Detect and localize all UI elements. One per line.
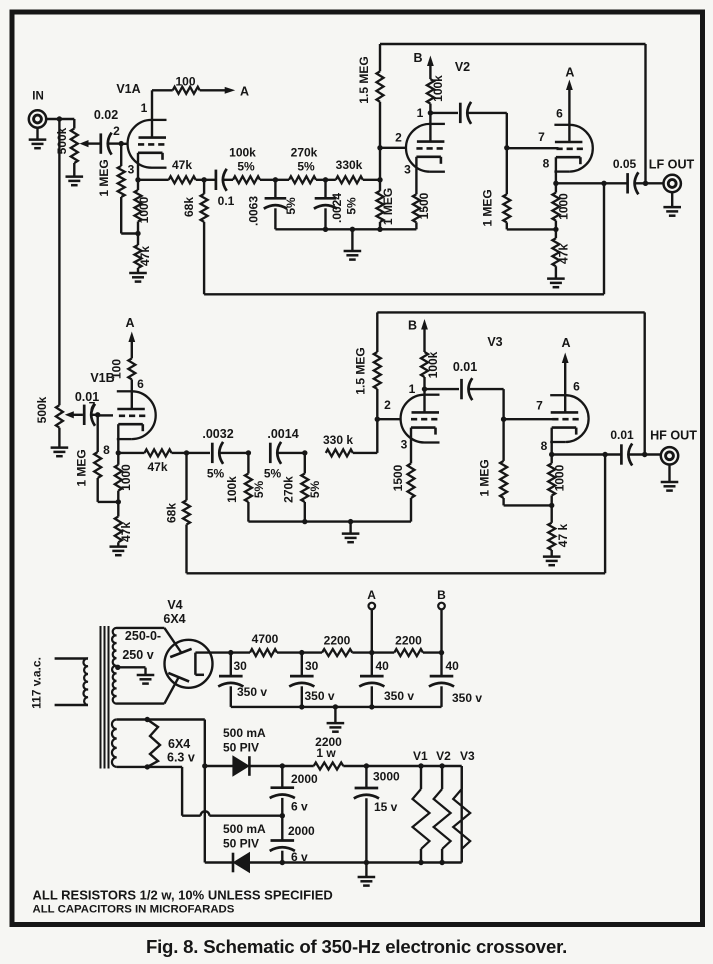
svg-text:40: 40 — [376, 659, 390, 673]
svg-text:2000: 2000 — [291, 772, 318, 786]
svg-text:47k: 47k — [147, 460, 167, 474]
svg-text:1000: 1000 — [137, 196, 151, 223]
svg-text:1500: 1500 — [391, 464, 405, 491]
svg-text:1.5 MEG: 1.5 MEG — [357, 56, 371, 103]
svg-text:2: 2 — [384, 398, 391, 412]
svg-text:2200: 2200 — [395, 634, 422, 648]
svg-text:100k: 100k — [225, 476, 239, 503]
svg-text:LF OUT: LF OUT — [649, 158, 695, 172]
svg-text:3: 3 — [128, 163, 135, 177]
svg-text:2000: 2000 — [288, 824, 315, 838]
svg-text:500 mA: 500 mA — [223, 726, 266, 740]
svg-text:.0063: .0063 — [247, 196, 261, 226]
svg-text:47 k: 47 k — [556, 523, 570, 547]
svg-text:68k: 68k — [182, 197, 196, 217]
svg-text:15 v: 15 v — [374, 800, 398, 814]
svg-text:0.02: 0.02 — [94, 108, 118, 122]
svg-text:3000: 3000 — [373, 770, 400, 784]
svg-text:V1: V1 — [413, 749, 428, 763]
svg-text:47k: 47k — [119, 522, 133, 542]
svg-text:1: 1 — [141, 101, 148, 115]
svg-text:A: A — [125, 316, 134, 330]
svg-text:2: 2 — [113, 124, 120, 138]
svg-text:4700: 4700 — [252, 632, 279, 646]
svg-text:1000: 1000 — [119, 464, 133, 491]
svg-text:8: 8 — [541, 439, 548, 453]
svg-text:.0014: .0014 — [267, 427, 298, 441]
svg-text:7: 7 — [89, 400, 96, 414]
svg-text:500k: 500k — [55, 127, 69, 154]
svg-text:68k: 68k — [165, 503, 179, 523]
svg-text:47k: 47k — [557, 244, 571, 264]
svg-text:6: 6 — [556, 107, 563, 121]
svg-text:5%: 5% — [284, 197, 298, 215]
svg-text:1: 1 — [417, 106, 424, 120]
svg-text:A: A — [367, 588, 376, 602]
svg-text:B: B — [408, 319, 417, 333]
svg-text:5%: 5% — [237, 160, 255, 174]
svg-text:1000: 1000 — [553, 464, 567, 491]
svg-text:250-0-: 250-0- — [125, 629, 161, 643]
svg-text:5%: 5% — [297, 160, 315, 174]
svg-text:7: 7 — [538, 130, 545, 144]
svg-text:V1A: V1A — [116, 82, 140, 96]
svg-text:.0032: .0032 — [202, 427, 233, 441]
svg-text:50 PIV: 50 PIV — [223, 837, 259, 851]
svg-text:A: A — [565, 66, 574, 80]
svg-text:6: 6 — [573, 380, 580, 394]
svg-text:1 MEG: 1 MEG — [75, 449, 89, 486]
svg-text:ALL CAPACITORS IN MICROFARADS: ALL CAPACITORS IN MICROFARADS — [33, 904, 235, 916]
svg-text:100k: 100k — [426, 351, 440, 378]
svg-text:5%: 5% — [207, 467, 225, 481]
svg-text:V4: V4 — [167, 598, 182, 612]
svg-text:100k: 100k — [431, 75, 445, 102]
svg-text:1: 1 — [409, 382, 416, 396]
svg-text:5%: 5% — [345, 197, 359, 215]
svg-text:B: B — [413, 51, 422, 65]
svg-text:6X4: 6X4 — [163, 612, 185, 626]
svg-text:330k: 330k — [336, 158, 363, 172]
svg-text:270k: 270k — [291, 146, 318, 160]
svg-text:100: 100 — [175, 74, 195, 88]
svg-text:47k: 47k — [138, 246, 152, 266]
svg-text:6X4: 6X4 — [168, 737, 190, 751]
svg-text:B: B — [437, 588, 446, 602]
svg-text:0.01: 0.01 — [610, 428, 634, 442]
svg-text:350 v: 350 v — [384, 689, 414, 703]
svg-text:1 MEG: 1 MEG — [481, 189, 495, 226]
svg-text:330 k: 330 k — [323, 433, 353, 447]
svg-text:350 v: 350 v — [237, 685, 267, 699]
svg-text:500 mA: 500 mA — [223, 822, 266, 836]
svg-text:6.3 v: 6.3 v — [167, 751, 195, 765]
svg-text:50 PIV: 50 PIV — [223, 741, 259, 755]
svg-text:A: A — [561, 336, 570, 350]
svg-text:1 MEG: 1 MEG — [478, 459, 492, 496]
svg-text:1000: 1000 — [557, 193, 571, 220]
svg-text:350 v: 350 v — [305, 689, 335, 703]
svg-text:8: 8 — [543, 157, 550, 171]
svg-text:1500: 1500 — [417, 192, 431, 219]
svg-text:.0024: .0024 — [330, 193, 344, 223]
svg-text:7: 7 — [536, 399, 543, 413]
svg-text:250 v: 250 v — [122, 648, 153, 662]
svg-text:0.05: 0.05 — [613, 157, 637, 171]
svg-text:117 v.a.c.: 117 v.a.c. — [30, 657, 44, 709]
svg-text:0.1: 0.1 — [218, 194, 235, 208]
svg-text:1 w: 1 w — [316, 746, 336, 760]
svg-text:3: 3 — [401, 438, 408, 452]
svg-text:V2: V2 — [455, 60, 470, 74]
svg-text:2: 2 — [395, 131, 402, 145]
svg-text:500k: 500k — [35, 396, 49, 423]
svg-text:100k: 100k — [229, 146, 256, 160]
svg-text:V3: V3 — [460, 749, 475, 763]
svg-text:HF OUT: HF OUT — [650, 429, 697, 443]
svg-text:6 v: 6 v — [291, 800, 308, 814]
svg-text:V2: V2 — [436, 749, 451, 763]
svg-text:5%: 5% — [308, 480, 322, 498]
svg-text:270k: 270k — [282, 476, 296, 503]
svg-text:3: 3 — [404, 163, 411, 177]
svg-text:A: A — [240, 85, 249, 99]
svg-text:40: 40 — [446, 659, 460, 673]
svg-text:1 MEG: 1 MEG — [381, 188, 395, 225]
svg-text:30: 30 — [305, 659, 319, 673]
svg-text:6: 6 — [137, 377, 144, 391]
svg-text:V3: V3 — [487, 335, 502, 349]
svg-text:ALL RESISTORS 1/2 w, 10% UNLES: ALL RESISTORS 1/2 w, 10% UNLESS SPECIFIE… — [33, 888, 333, 903]
svg-text:30: 30 — [234, 659, 248, 673]
svg-text:5%: 5% — [264, 467, 282, 481]
svg-text:0.01: 0.01 — [453, 360, 477, 374]
svg-text:1 MEG: 1 MEG — [97, 159, 111, 196]
svg-text:1.5 MEG: 1.5 MEG — [354, 347, 368, 394]
svg-text:100: 100 — [110, 359, 124, 379]
svg-text:IN: IN — [32, 91, 44, 103]
svg-text:8: 8 — [103, 443, 110, 457]
svg-text:350 v: 350 v — [452, 691, 482, 705]
svg-text:2200: 2200 — [324, 634, 351, 648]
svg-text:47k: 47k — [172, 158, 192, 172]
svg-text:5%: 5% — [252, 480, 266, 498]
svg-text:0.01: 0.01 — [75, 390, 99, 404]
